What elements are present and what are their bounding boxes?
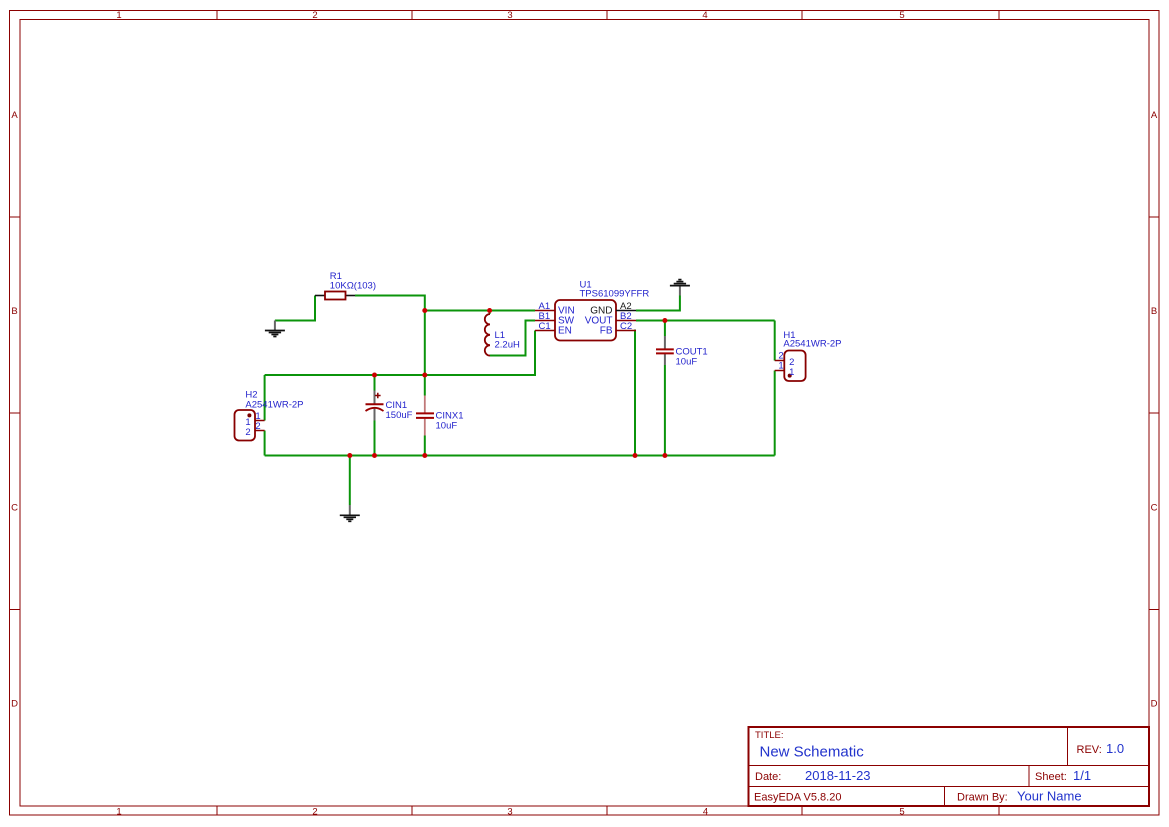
svg-text:2: 2 bbox=[255, 421, 260, 432]
svg-text:B: B bbox=[1151, 306, 1157, 317]
wire VOUT to H1 bbox=[636, 320, 775, 322]
svg-text:Date:: Date: bbox=[755, 771, 781, 783]
wires bbox=[265, 296, 775, 506]
wire H2 pin1 drop bbox=[264, 375, 266, 421]
svg-text:A: A bbox=[1151, 110, 1158, 121]
capacitor COUT1 bbox=[656, 336, 708, 368]
wire ground stem bottom bbox=[349, 456, 351, 506]
svg-text:EasyEDA V5.8.20: EasyEDA V5.8.20 bbox=[754, 792, 841, 804]
node VOUT/COUT1 bbox=[662, 318, 667, 323]
svg-text:TITLE:: TITLE: bbox=[755, 730, 784, 741]
svg-text:A2541WR-2P: A2541WR-2P bbox=[245, 399, 303, 410]
svg-text:1: 1 bbox=[116, 10, 121, 21]
svg-text:B: B bbox=[11, 306, 17, 317]
svg-text:5: 5 bbox=[899, 807, 904, 818]
svg-text:1: 1 bbox=[789, 367, 794, 378]
wire EN to left rail bbox=[265, 331, 535, 376]
wire FB drop bbox=[635, 331, 636, 456]
svg-text:New Schematic: New Schematic bbox=[760, 744, 865, 761]
wire CIN1 bottom bbox=[374, 420, 376, 456]
node rail/CIN1 bbox=[372, 453, 377, 458]
svg-text:A: A bbox=[11, 110, 18, 121]
pin B1 SW bbox=[535, 320, 555, 322]
connector H1 bbox=[775, 330, 842, 381]
pin B2 VOUT bbox=[616, 320, 636, 322]
svg-text:C: C bbox=[1151, 503, 1158, 514]
svg-text:C2: C2 bbox=[620, 321, 632, 332]
wire H2 pin2 drop bbox=[264, 431, 266, 456]
wire R1 right to VIN node bbox=[355, 296, 425, 311]
junction dots bbox=[347, 308, 667, 458]
pin 1 bbox=[255, 420, 265, 422]
wire L1 bottom to SW bbox=[490, 321, 535, 356]
svg-text:C1: C1 bbox=[539, 321, 551, 332]
wire bottom rail bbox=[265, 455, 775, 457]
svg-text:1: 1 bbox=[116, 807, 121, 818]
pin 2 bbox=[255, 430, 265, 432]
wire node to EN rail bbox=[424, 311, 426, 376]
ground near R1 bbox=[265, 321, 285, 337]
wire CINX1 bottom bbox=[424, 436, 426, 456]
svg-text:1/1: 1/1 bbox=[1073, 768, 1091, 783]
svg-text:C: C bbox=[11, 503, 18, 514]
svg-text:EN: EN bbox=[558, 326, 572, 337]
ground at bottom rail bbox=[340, 505, 360, 521]
wire COUT1 bottom bbox=[664, 365, 666, 456]
svg-text:FB: FB bbox=[600, 326, 613, 337]
wire L1 top stub bbox=[489, 311, 491, 315]
node VIN/R1 bbox=[422, 308, 427, 313]
wire VIN net horizontal bbox=[425, 310, 535, 312]
svg-text:Your Name: Your Name bbox=[1017, 789, 1082, 804]
capacitor CINX1 bbox=[416, 396, 463, 436]
capacitor CIN1 bbox=[366, 391, 413, 421]
wire H1 pin2 drop bbox=[774, 321, 776, 361]
svg-text:3: 3 bbox=[507, 807, 512, 818]
node rail/ground bbox=[347, 453, 352, 458]
svg-text:REV:: REV: bbox=[1077, 744, 1102, 756]
svg-text:Sheet:: Sheet: bbox=[1035, 771, 1067, 783]
svg-text:1: 1 bbox=[778, 361, 783, 372]
svg-text:D: D bbox=[11, 699, 18, 710]
svg-text:2: 2 bbox=[312, 807, 317, 818]
wire R1 left to ground bbox=[275, 296, 315, 321]
svg-text:4: 4 bbox=[702, 10, 707, 21]
pin C2 FB bbox=[616, 330, 636, 332]
node rail/FB bbox=[633, 453, 638, 458]
wire H1 pin1 drop bbox=[774, 371, 776, 456]
pin A1 VIN bbox=[535, 310, 555, 312]
svg-text:5: 5 bbox=[899, 10, 904, 21]
svg-text:4: 4 bbox=[703, 807, 708, 818]
connector H2 bbox=[235, 390, 304, 441]
wire COUT1 top bbox=[664, 321, 666, 337]
svg-text:10uF: 10uF bbox=[676, 357, 698, 368]
node rail/CINX1 bbox=[422, 453, 427, 458]
svg-text:2: 2 bbox=[312, 10, 317, 21]
svg-text:150uF: 150uF bbox=[386, 410, 413, 421]
wire CIN1 top bbox=[374, 375, 376, 391]
svg-text:TPS61099YFFR: TPS61099YFFR bbox=[580, 289, 650, 300]
node rail/COUT1 bbox=[662, 453, 667, 458]
node EN/CIN1 bbox=[372, 373, 377, 378]
svg-text:2.2uH: 2.2uH bbox=[495, 340, 520, 351]
svg-text:2018-11-23: 2018-11-23 bbox=[805, 768, 871, 783]
pin 2 bbox=[775, 360, 785, 362]
node VIN/L1 bbox=[487, 308, 492, 313]
title block bbox=[749, 727, 1150, 806]
ground at U1 GND (inverted) bbox=[670, 280, 690, 296]
inductor L1 bbox=[485, 314, 520, 356]
wire GND A2 to ground bbox=[636, 296, 680, 311]
svg-text:3: 3 bbox=[507, 10, 512, 21]
pin A2 GND bbox=[616, 310, 636, 312]
svg-text:1.0: 1.0 bbox=[1106, 741, 1124, 756]
node EN/CINX1 bbox=[422, 373, 427, 378]
resistor R1 bbox=[315, 271, 376, 300]
svg-text:D: D bbox=[1151, 699, 1158, 710]
pin 1 bbox=[775, 370, 785, 372]
svg-text:Drawn By:: Drawn By: bbox=[957, 792, 1008, 804]
svg-text:A2541WR-2P: A2541WR-2P bbox=[783, 339, 841, 350]
op-amp U1 bbox=[535, 280, 649, 341]
svg-text:2: 2 bbox=[245, 427, 250, 438]
svg-text:10uF: 10uF bbox=[436, 420, 458, 431]
wire CINX1 top bbox=[424, 375, 426, 396]
pin C1 EN bbox=[535, 330, 555, 332]
svg-text:10KΩ(103): 10KΩ(103) bbox=[330, 281, 376, 292]
